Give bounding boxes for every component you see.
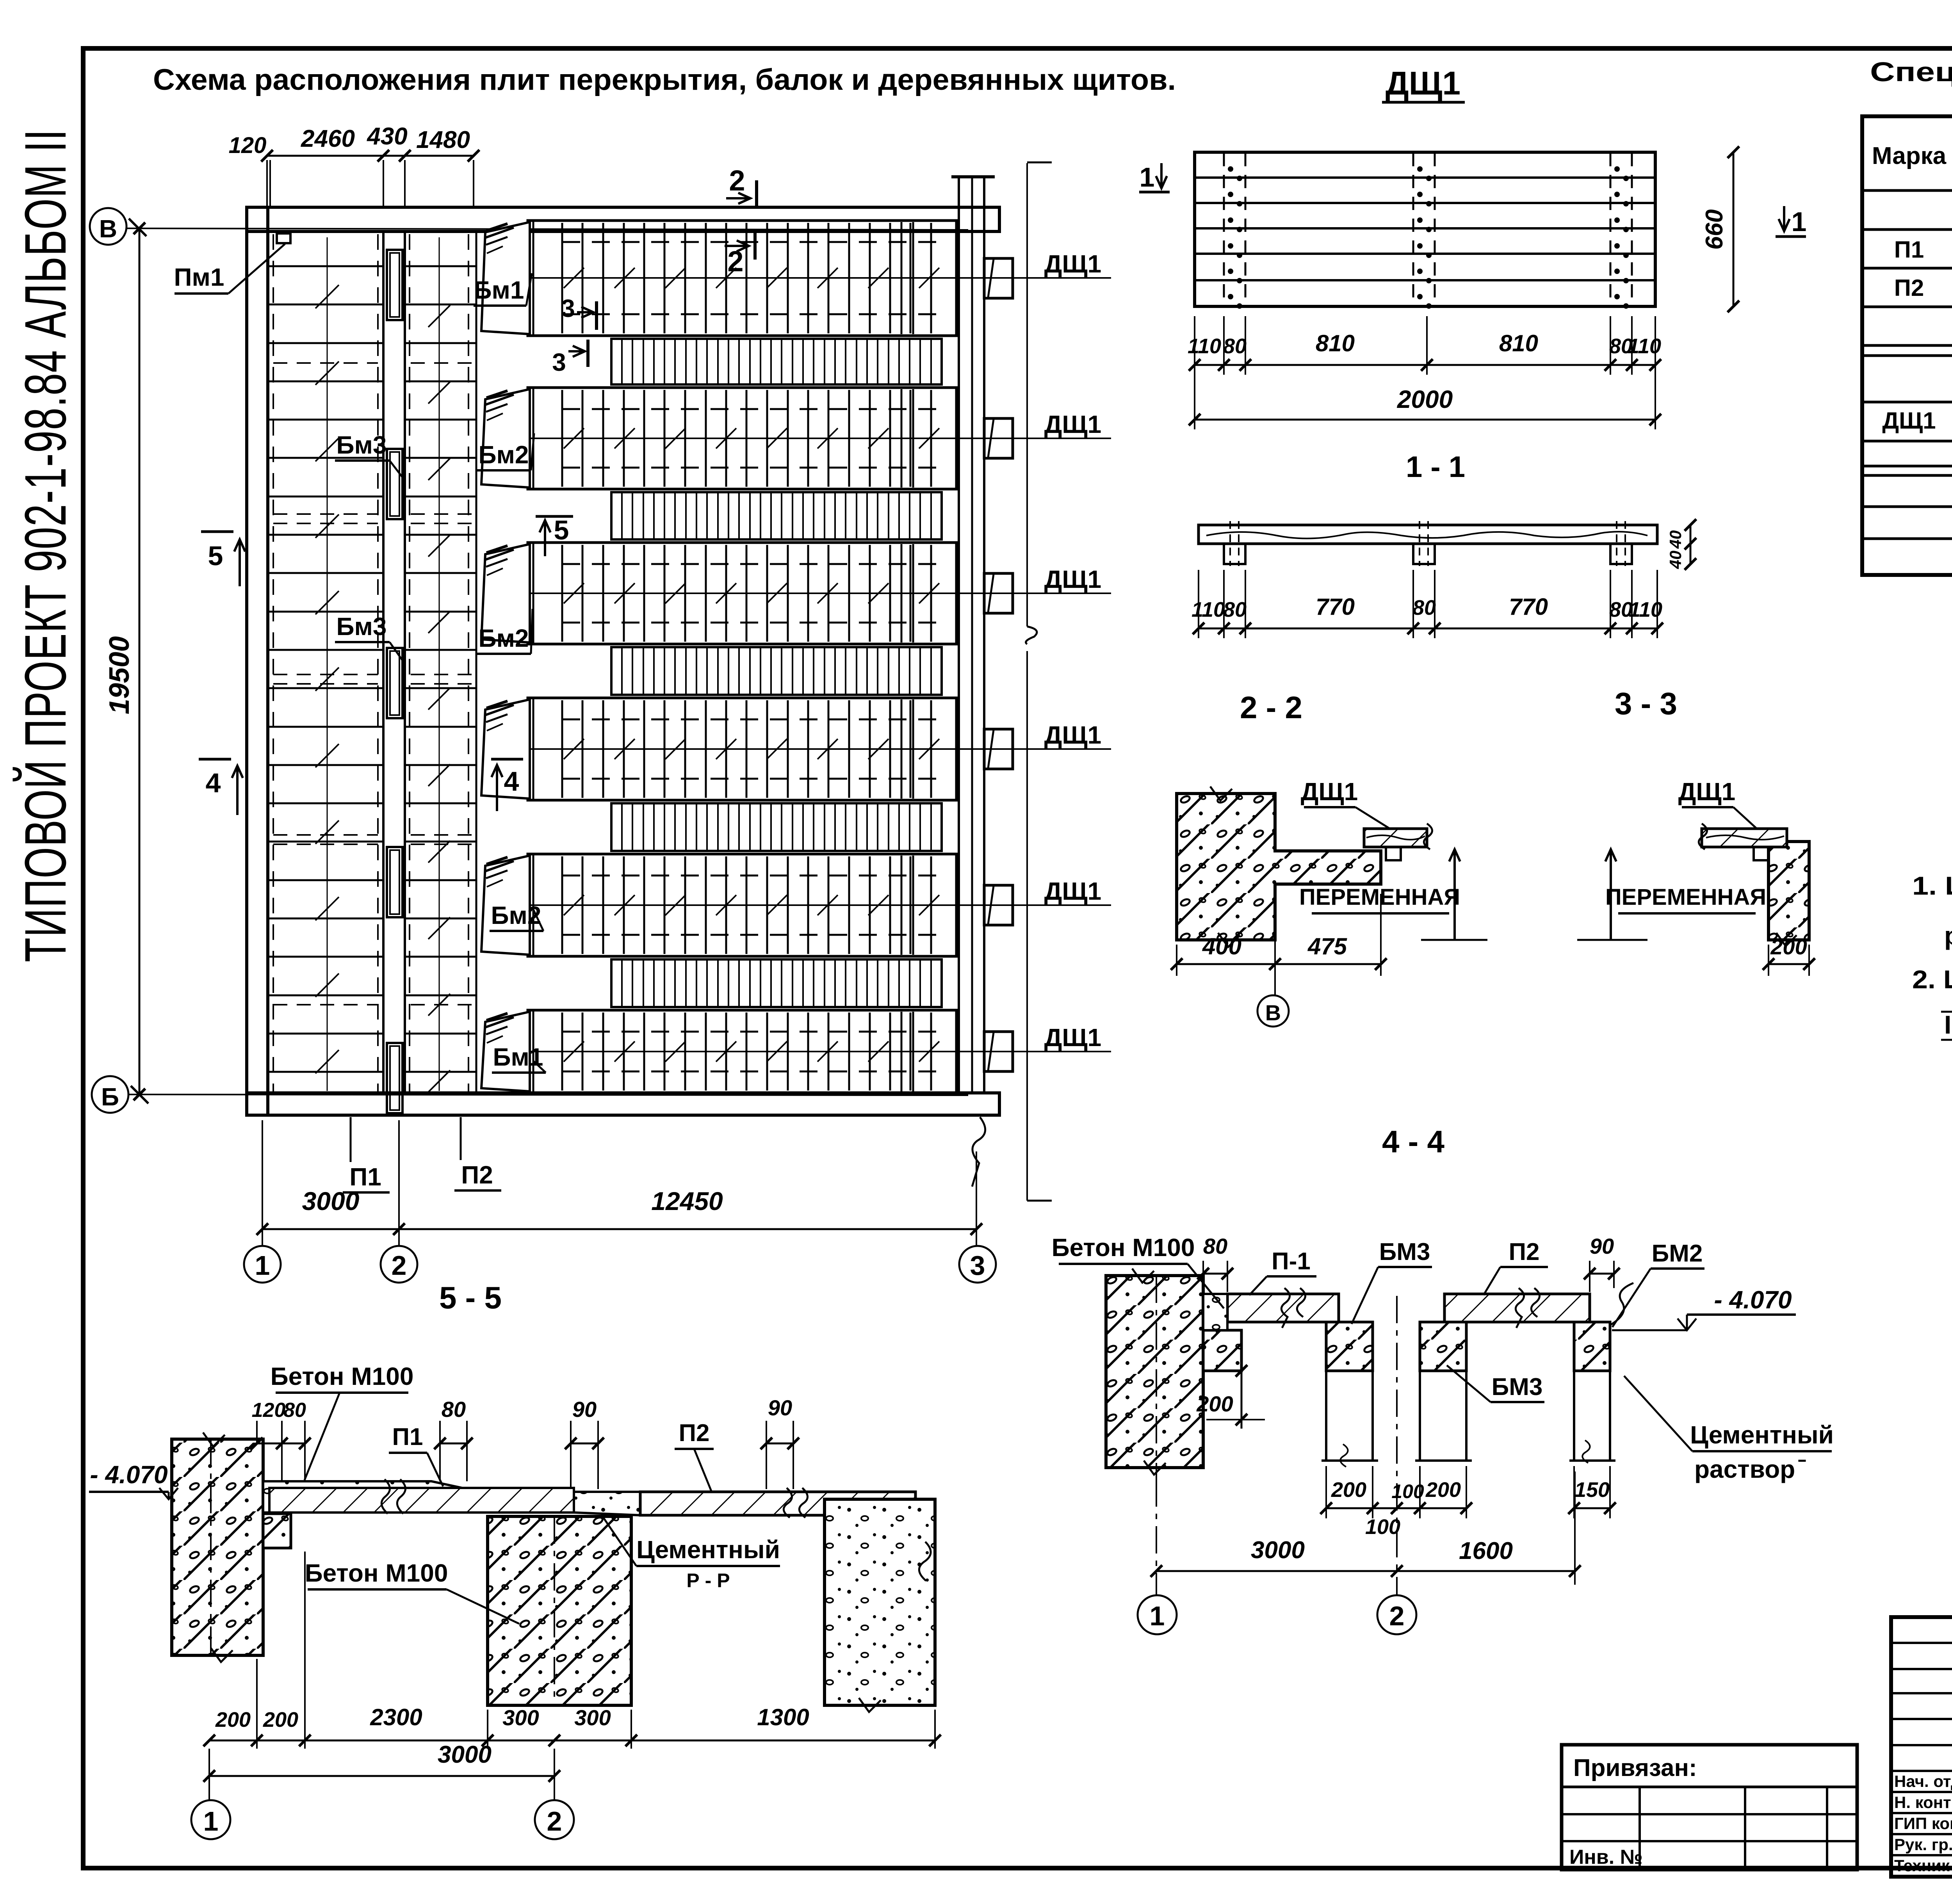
svg-text:Р - Р: Р - Р	[686, 1569, 730, 1591]
ДЩ1 tab band 4	[984, 729, 1013, 769]
svg-text:200: 200	[263, 1708, 298, 1731]
svg-text:Бм2: Бм2	[479, 441, 529, 469]
svg-text:ДЩ1: ДЩ1	[1044, 250, 1101, 278]
ДЩ1 panel band 6	[528, 1010, 956, 1093]
svg-text:80: 80	[1203, 1234, 1227, 1258]
stamp revision grid	[1891, 1642, 1952, 1644]
svg-text:2: 2	[392, 1250, 407, 1281]
svg-text:П2: П2	[679, 1420, 709, 1447]
svg-text:- 4.070: - 4.070	[90, 1461, 167, 1489]
svg-text:3: 3	[552, 348, 566, 376]
svg-text:ПЕРЕМЕННАЯ: ПЕРЕМЕННАЯ	[1299, 884, 1460, 910]
svg-text:ДЩ1: ДЩ1	[1301, 778, 1358, 806]
plan bottom dim line 3000 / 12450	[262, 1228, 976, 1230]
4-4 wall break marks	[1132, 1269, 1154, 1283]
svg-text:110: 110	[1192, 598, 1225, 621]
5-5 bottom dim row	[209, 1740, 935, 1742]
svg-text:1: 1	[203, 1806, 219, 1836]
5-5 axis line 1	[210, 1439, 212, 1655]
ДЩ1 side view bar with wood grain	[1199, 525, 1657, 544]
4-4 П2 break squiggle	[1516, 1288, 1524, 1328]
svg-text:Цементный: Цементный	[636, 1536, 780, 1564]
ДЩ1 side view cleats	[1224, 544, 1245, 564]
П1 strip dashed edges	[272, 234, 274, 1092]
5-5 right wall hatched	[825, 1499, 935, 1705]
section 3-3 wall break mark	[1776, 933, 1797, 946]
svg-text:П1: П1	[1894, 237, 1924, 263]
dim 90 (4-4)	[1590, 1273, 1614, 1275]
beam trapezoid at band 1	[481, 222, 530, 334]
ДЩ1 vertical dim 660	[1733, 152, 1735, 306]
5-5 slab П1	[269, 1488, 574, 1513]
svg-text:БМ3: БМ3	[1492, 1374, 1543, 1400]
ДЩ1 tab band 2	[984, 418, 1013, 458]
svg-text:- 4.070: - 4.070	[1714, 1286, 1792, 1314]
svg-text:810: 810	[1499, 330, 1538, 356]
svg-text:80: 80	[1223, 598, 1247, 621]
П2 slab strip joints	[405, 265, 476, 267]
svg-text:2: 2	[1389, 1601, 1405, 1631]
axis Б line	[129, 1094, 968, 1095]
section 2-2 bar break squiggle	[1424, 824, 1432, 849]
svg-text:ДЩ1: ДЩ1	[1044, 565, 1101, 593]
ДЩ1 panel band 4	[528, 698, 956, 800]
grid extension lines	[262, 1120, 263, 1246]
right column strip verticals	[958, 178, 960, 1093]
svg-text:19500: 19500	[104, 636, 135, 714]
5-5 right wall break mark	[859, 1698, 881, 1712]
svg-text:рованы.: рованы.	[1944, 921, 1952, 950]
4-4 БМ3 block left	[1326, 1322, 1373, 1371]
4-4 dim 150	[1574, 1507, 1610, 1509]
section mark 4 right	[491, 758, 523, 761]
ДЩ1 tab band 5	[984, 885, 1013, 925]
svg-text:П2: П2	[1509, 1238, 1539, 1265]
svg-text:ДЩ1: ДЩ1	[1044, 721, 1101, 749]
svg-text:40: 40	[1666, 551, 1685, 569]
svg-text:2 - 2: 2 - 2	[1240, 690, 1302, 725]
ДЩ1 dim row 110/80/810/810/80/110	[1195, 364, 1655, 366]
svg-text:770: 770	[1316, 594, 1355, 620]
svg-text:80: 80	[442, 1397, 466, 1422]
section 3-3 cleat under bar	[1754, 847, 1769, 860]
svg-text:ДЩ1: ДЩ1	[1044, 410, 1101, 438]
plan: top wall	[247, 207, 999, 231]
svg-text:Нач. отд.: Нач. отд.	[1894, 1772, 1952, 1790]
svg-text:ПЕРЕМЕННАЯ: ПЕРЕМЕННАЯ	[1605, 884, 1766, 910]
Бм3 beam strip edges	[382, 231, 385, 1093]
svg-text:3 - 3: 3 - 3	[1615, 686, 1677, 721]
5-5 axis line 2	[554, 1516, 555, 1705]
svg-text:5: 5	[554, 515, 569, 545]
svg-text:В: В	[99, 215, 117, 243]
4-4 slab П2	[1444, 1294, 1590, 1322]
П1 slab strip joints	[268, 265, 383, 267]
П2 strip right boundary	[476, 231, 477, 1093]
svg-text:раствор ̄: раствор ̄	[1694, 1455, 1806, 1483]
svg-text:2. Щиты изготавливаются: 2. Щиты изготавливаются из древесины	[1912, 965, 1952, 994]
svg-text:3: 3	[561, 294, 575, 322]
svg-text:ДЩ1: ДЩ1	[1882, 407, 1936, 434]
4-4 wall axis line	[1156, 1276, 1157, 1479]
svg-text:100: 100	[1365, 1515, 1400, 1539]
svg-text:110: 110	[1188, 335, 1221, 358]
beam trapezoid at band 6	[481, 1012, 530, 1091]
svg-text:90: 90	[572, 1397, 597, 1422]
dim 90 right (5-5)	[766, 1443, 793, 1445]
svg-text:Схема расположения плит: Схема расположения плит перекрытия, бало…	[153, 63, 1176, 96]
svg-text:П2: П2	[1894, 275, 1924, 301]
svg-text:Бетон М100: Бетон М100	[305, 1559, 448, 1587]
4-4 БМ3 left pillar lines	[1325, 1371, 1327, 1461]
dim 90 (5-5)	[571, 1443, 598, 1445]
svg-text:4 - 4: 4 - 4	[1382, 1124, 1445, 1159]
svg-text:Марка: Марка	[1872, 142, 1947, 169]
svg-text:Бетон М100: Бетон М100	[1052, 1233, 1195, 1262]
svg-text:120: 120	[229, 133, 267, 158]
svg-text:1: 1	[1792, 206, 1807, 237]
svg-text:3: 3	[970, 1250, 985, 1281]
svg-text:Пм1: Пм1	[174, 263, 224, 291]
axis В circle	[90, 208, 126, 245]
ДЩ1 side dim row 110/80/770/80/770/80/110	[1199, 628, 1657, 630]
ДЩ1 cleat strips with nails	[1223, 153, 1225, 306]
svg-text:Техник: Техник	[1894, 1856, 1950, 1875]
svg-text:475: 475	[1307, 933, 1348, 959]
svg-text:660: 660	[1701, 209, 1728, 249]
plan: left wall	[247, 207, 268, 1115]
svg-text:БМ3: БМ3	[1379, 1238, 1430, 1265]
variable height dim (2-2)	[1453, 849, 1456, 940]
4-4 left wall hatched	[1106, 1276, 1203, 1468]
plan top dim line	[267, 155, 474, 157]
svg-text:ДЩ1: ДЩ1	[1678, 778, 1735, 806]
4-4 main dim 3000/1600	[1156, 1570, 1575, 1572]
4-4 axis extensions	[1156, 1479, 1157, 1594]
section 2-2 dims 400 475	[1177, 963, 1381, 965]
joist band 3	[611, 647, 942, 695]
joist band 1	[611, 339, 942, 384]
svg-text:3000: 3000	[1251, 1537, 1305, 1564]
grid circle 3	[959, 1246, 996, 1283]
svg-text:200: 200	[1425, 1478, 1461, 1502]
П2 slab dashed joints	[411, 362, 472, 364]
4-4 БМ3 block right	[1420, 1322, 1466, 1371]
grid circle В (2-2)	[1257, 995, 1289, 1027]
4-4 БМ2 pillar lines	[1573, 1371, 1575, 1461]
svg-text:П1: П1	[392, 1424, 423, 1450]
5-5 left wall hatched	[172, 1439, 263, 1655]
5-5 wall break marks	[203, 1432, 225, 1447]
main stamp outer box	[1891, 1617, 1952, 1877]
svg-text:Инв. №: Инв. №	[1569, 1846, 1643, 1868]
П2 strip centerline with ticks	[439, 237, 440, 1091]
svg-text:4: 4	[206, 768, 221, 798]
svg-text:1480: 1480	[416, 126, 470, 153]
svg-text:1300: 1300	[757, 1704, 809, 1730]
svg-text:80: 80	[1223, 335, 1247, 358]
svg-text:1: 1	[1140, 162, 1155, 192]
section mark 4 left	[199, 758, 231, 761]
5-5 wall ledge	[263, 1514, 291, 1548]
svg-text:Бетон М100: Бетон М100	[271, 1362, 414, 1390]
ДЩ1 side thickness dims 40/40	[1690, 525, 1692, 564]
4-4 wall ledge	[1203, 1330, 1241, 1371]
ДЩ1 panel band 2	[528, 388, 956, 489]
section 2-2 wall (hatched concrete)	[1177, 794, 1381, 940]
svg-text:Бм2: Бм2	[491, 901, 541, 929]
beam trapezoid at band 3	[481, 544, 530, 642]
svg-text:Бм1: Бм1	[493, 1043, 543, 1071]
5-5 grid circle 1	[191, 1800, 230, 1839]
svg-text:Б: Б	[101, 1083, 119, 1111]
5-5 dim 3000	[209, 1775, 554, 1777]
4-4 slab П-1	[1227, 1294, 1339, 1322]
svg-text:430: 430	[366, 123, 407, 150]
svg-text:5: 5	[208, 541, 223, 571]
svg-text:В: В	[1265, 1000, 1281, 1025]
section mark 5 left	[201, 530, 233, 533]
ДЩ1 total dim 2000	[1195, 419, 1655, 421]
4-4 БМ2 block	[1574, 1322, 1610, 1371]
stamp signature rows	[1891, 1791, 1952, 1793]
variable height dim (3-3)	[1610, 849, 1612, 940]
svg-text:5 - 5: 5 - 5	[439, 1280, 502, 1315]
svg-text:1: 1	[255, 1250, 270, 1281]
svg-text:2: 2	[547, 1806, 562, 1836]
svg-text:Н. контр.: Н. контр.	[1894, 1793, 1952, 1811]
svg-text:1 - 1: 1 - 1	[1406, 450, 1465, 484]
section mark 5 right	[536, 515, 573, 518]
axis В line	[127, 228, 968, 230]
svg-text:БМ2: БМ2	[1652, 1240, 1703, 1267]
svg-text:ГИП кон.: ГИП кон.	[1894, 1814, 1952, 1833]
section 2-2 ДЩ1 wood bar	[1364, 829, 1427, 847]
ДЩ1 panel band 1	[528, 221, 956, 336]
svg-text:Цементный: Цементный	[1690, 1421, 1834, 1449]
dim 80 mid (5-5)	[440, 1443, 467, 1445]
4-4 grid circle 1	[1138, 1595, 1177, 1634]
dims 120 80 (5-5)	[257, 1443, 305, 1445]
svg-text:П-1: П-1	[1272, 1248, 1311, 1275]
section 3-3 ДЩ1 wood bar	[1702, 829, 1787, 847]
svg-text:90: 90	[768, 1395, 792, 1420]
5-5 concrete topping layer	[263, 1481, 640, 1515]
joist band 4	[611, 803, 942, 851]
section 3-3 bar break squiggle	[1699, 824, 1707, 849]
beam trapezoid at band 5	[481, 856, 530, 955]
section 3-3 dim 200	[1769, 963, 1809, 965]
Бм3 beams	[387, 250, 403, 320]
section 2-2 cleat under bar	[1386, 847, 1401, 860]
svg-text:400: 400	[1202, 933, 1241, 959]
4-4 dim row 200/100/200	[1326, 1507, 1466, 1509]
svg-text:Бм2: Бм2	[479, 624, 529, 652]
4-4 БМ3 right pillar lines	[1419, 1371, 1421, 1461]
svg-text:300: 300	[574, 1705, 611, 1730]
4-4 grid circle 2	[1377, 1595, 1416, 1634]
svg-text:Привязан:: Привязан:	[1573, 1755, 1697, 1781]
svg-text:1: 1	[1150, 1601, 1165, 1631]
plan: bottom wall	[247, 1093, 999, 1115]
joist band 2	[611, 492, 942, 539]
axis Б circle	[92, 1076, 128, 1113]
svg-text:П2: П2	[461, 1161, 493, 1189]
svg-text:2460: 2460	[301, 125, 355, 152]
svg-text:Бм3: Бм3	[337, 431, 387, 459]
svg-text:110: 110	[1629, 598, 1662, 621]
svg-text:Бм3: Бм3	[337, 612, 387, 641]
svg-text:Спецификация к схеме расп: Спецификация к схеме расположения плит	[1870, 57, 1952, 87]
П1 strip centerline with ticks	[327, 237, 328, 1091]
Пм1 anchor plate	[277, 233, 290, 243]
svg-text:ДЩ1: ДЩ1	[1386, 65, 1460, 101]
svg-text:200: 200	[1196, 1392, 1233, 1416]
ДЩ1 tab band 6	[984, 1032, 1013, 1071]
vertical dim 19500	[139, 228, 141, 1094]
svg-text:80: 80	[1412, 596, 1436, 619]
5-5 grid circle 2	[535, 1800, 574, 1839]
svg-text:4: 4	[504, 766, 519, 797]
4-4 concrete pad under П-1	[1203, 1294, 1227, 1330]
svg-text:ТИПОВОЙ ПРОЕКТ 902-1-98.84: ТИПОВОЙ ПРОЕКТ 902-1-98.84 АЛЬБОМ II	[12, 129, 78, 962]
svg-text:80: 80	[283, 1399, 306, 1422]
5-5 slab П2	[640, 1492, 915, 1515]
svg-text:2300: 2300	[370, 1704, 422, 1730]
svg-text:Бм1: Бм1	[474, 276, 524, 304]
4-4 БМ2 top-right break curve	[1610, 1283, 1633, 1325]
long break line right of plan	[1026, 163, 1028, 626]
beam trapezoid at band 4	[481, 699, 530, 799]
svg-text:2000: 2000	[1397, 385, 1453, 413]
svg-text:II: II	[1944, 1010, 1952, 1039]
specification table grid	[1862, 116, 1952, 575]
ДЩ1 panel band 5	[528, 854, 956, 956]
beam trapezoid at band 2	[481, 389, 530, 488]
svg-text:200: 200	[215, 1708, 251, 1731]
svg-text:810: 810	[1316, 330, 1355, 356]
svg-text:1. Щиты до укладки долж: 1. Щиты до укладки должны быть антисепти…	[1912, 871, 1952, 900]
section 3-3 wall (hatched concrete)	[1769, 842, 1809, 940]
П2 strip dashed edges	[409, 234, 410, 1092]
svg-text:1600: 1600	[1459, 1537, 1513, 1564]
svg-text:90: 90	[1590, 1234, 1614, 1258]
joist band 5	[611, 959, 942, 1007]
svg-text:150: 150	[1574, 1478, 1610, 1502]
svg-text:Рук. гр.: Рук. гр.	[1894, 1835, 1952, 1854]
5-5 slab break squiggles	[381, 1479, 390, 1514]
привязан table	[1562, 1745, 1857, 1870]
svg-text:3000: 3000	[438, 1741, 492, 1768]
4-4 П-1 break squiggle	[1281, 1288, 1289, 1328]
dim 80 (4-4)	[1203, 1273, 1227, 1275]
svg-text:120: 120	[252, 1399, 286, 1422]
section 2-2 wall break marks	[1210, 787, 1232, 801]
ДЩ1 panel band 3	[528, 543, 956, 644]
ДЩ1 tab band 3	[984, 573, 1013, 613]
ДЩ1 panel plan view	[1195, 152, 1655, 306]
grid circle 1	[244, 1246, 281, 1283]
svg-text:200: 200	[1331, 1478, 1366, 1502]
svg-text:200: 200	[1770, 934, 1807, 959]
svg-text:3000: 3000	[302, 1187, 360, 1215]
5-5 middle pier hatched	[488, 1516, 631, 1705]
svg-text:12450: 12450	[651, 1187, 723, 1215]
grid circle 2	[381, 1246, 417, 1283]
svg-text:ДЩ1: ДЩ1	[1044, 1023, 1101, 1052]
svg-text:110: 110	[1628, 335, 1661, 358]
svg-text:770: 770	[1509, 594, 1548, 620]
svg-text:ДЩ1: ДЩ1	[1044, 877, 1101, 905]
ДЩ1 tab band 1	[984, 258, 1013, 298]
svg-text:40: 40	[1666, 530, 1685, 549]
svg-text:2: 2	[729, 164, 745, 197]
svg-text:300: 300	[502, 1705, 539, 1730]
